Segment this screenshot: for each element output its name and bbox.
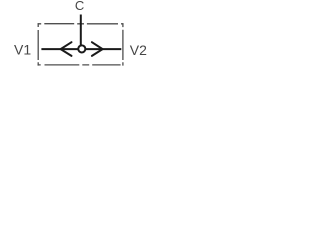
wire C lead (vertical) [80, 15, 82, 48]
background [0, 0, 160, 78]
svg-text:V1: V1 [14, 42, 31, 58]
switch U1 boundary (dashed box) [38, 23, 124, 65]
svg-text:V2: V2 [130, 42, 147, 58]
pole circle (switch common node) [78, 45, 85, 52]
arrowhead left (points to V1) [61, 42, 72, 56]
svg-text:C: C [75, 0, 84, 13]
wire V1 to V2 (horizontal) [41, 48, 121, 50]
arrowhead right (points to V2) [92, 42, 103, 56]
